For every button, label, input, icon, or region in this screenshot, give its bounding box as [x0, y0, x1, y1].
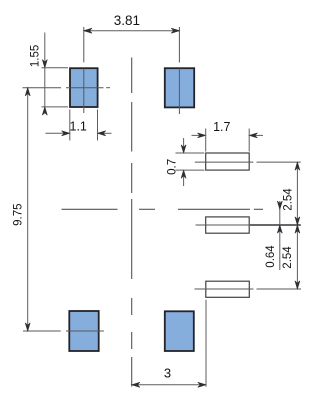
dimension 2.54 lower line — [295, 225, 300, 289]
hole pad R2 centerline extension (bold) — [250, 224, 301, 226]
dimension 1.55 line — [42, 33, 69, 116]
hole pad R3 centerline — [195, 288, 302, 290]
svg-text:0.7: 0.7 — [167, 159, 179, 175]
dimension 3 line — [132, 300, 206, 388]
svg-text:0.64: 0.64 — [265, 245, 277, 268]
pad P3 bottom-left — [69, 311, 98, 351]
dimension 1.1 line — [46, 110, 112, 141]
pad P1 top-left — [70, 68, 98, 107]
pad P2 top-right — [165, 68, 194, 107]
svg-text:3: 3 — [164, 366, 171, 381]
dimension 0.7 line — [176, 138, 205, 186]
dimension 0.64 line — [277, 201, 282, 270]
dimension 9.75 line — [25, 88, 30, 331]
pad P3 horizontal centerline / 9.75 extension — [23, 330, 104, 332]
pad P4 bottom-right — [165, 311, 194, 351]
hole pad R1 centerline — [195, 161, 301, 163]
pad P2 vertical centerline / 3.81 extension — [178, 27, 180, 114]
svg-text:1.7: 1.7 — [213, 120, 230, 134]
svg-text:1.1: 1.1 — [70, 120, 87, 134]
dimension 3.81 line — [84, 28, 180, 33]
svg-text:2.54: 2.54 — [282, 188, 294, 211]
dimension 1.7 line — [192, 129, 264, 152]
svg-text:3.81: 3.81 — [114, 13, 140, 28]
hole pad R2 centerline — [196, 224, 251, 226]
pad P1 vertical centerline / 3.81 extension — [83, 27, 85, 113]
horizontal centerline — [62, 208, 264, 210]
svg-text:9.75: 9.75 — [13, 204, 25, 226]
dimension 2.54 upper line — [295, 162, 300, 225]
vertical centerline — [131, 58, 133, 387]
hole pad R1 top-right rectangle — [206, 153, 250, 170]
hole pad R2 middle rectangle — [206, 217, 250, 233]
svg-text:1.55: 1.55 — [29, 45, 41, 67]
hole pad R3 bottom rectangle — [206, 281, 250, 297]
svg-text:2.54: 2.54 — [282, 246, 294, 269]
pad P1 horizontal centerline / 9.75 extension — [23, 87, 111, 89]
